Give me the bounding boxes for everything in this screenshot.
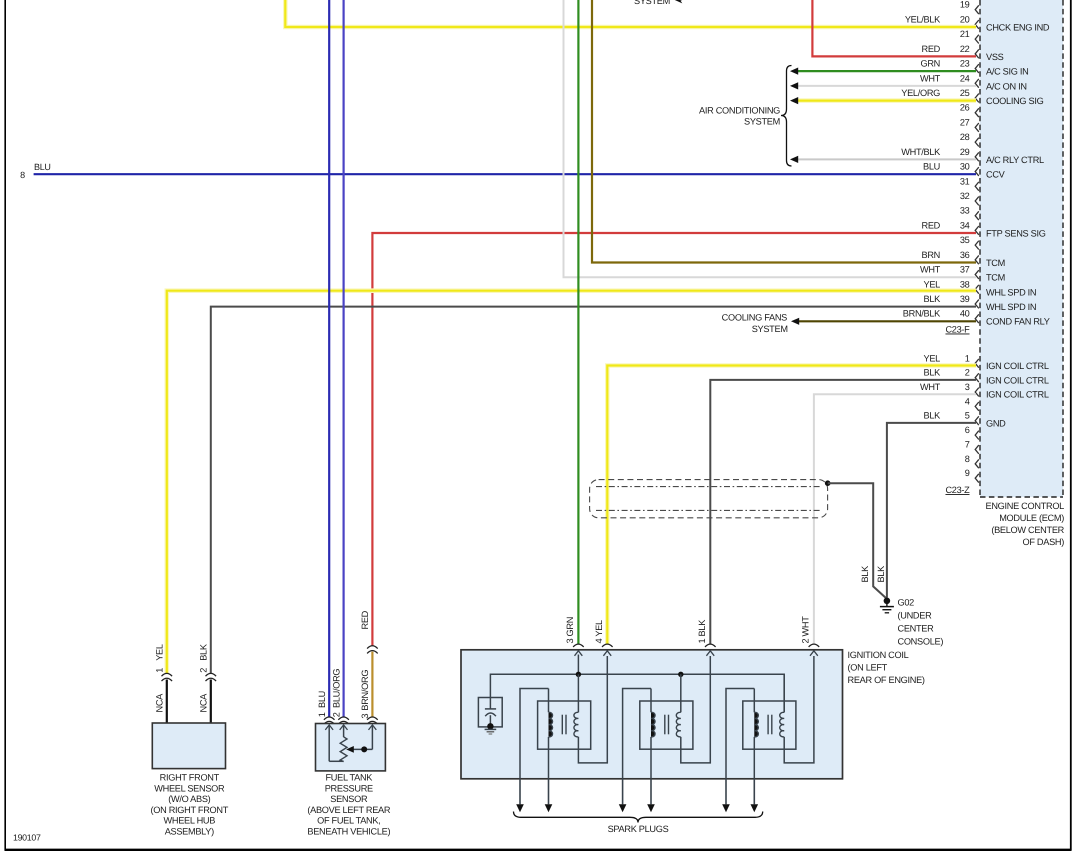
connector arc coil pin 3 — [573, 644, 584, 647]
svg-text:(W/O ABS): (W/O ABS) — [168, 794, 210, 804]
svg-text:2: 2 — [198, 668, 208, 673]
svg-text:27: 27 — [960, 117, 970, 127]
svg-text:BRN: BRN — [922, 250, 941, 260]
wire NCA 1 wheel sensor — [166, 680, 168, 724]
ECM pin 28 (C23-F) — [975, 138, 979, 147]
svg-text:WHL SPD IN: WHL SPD IN — [986, 302, 1036, 312]
svg-text:SENSOR: SENSOR — [330, 794, 368, 804]
ECM pin 40 (C23-F) — [975, 314, 979, 323]
unit 2 secondary vertical stubs — [650, 689, 652, 713]
unit 1 secondary vertical stubs — [548, 689, 550, 713]
svg-text:28: 28 — [960, 132, 970, 142]
svg-text:WHL SPD IN: WHL SPD IN — [986, 287, 1036, 297]
svg-text:CENTER: CENTER — [898, 623, 935, 633]
svg-text:PRESSURE: PRESSURE — [325, 783, 373, 793]
svg-text:29: 29 — [960, 147, 970, 157]
svg-text:BENEATH VEHICLE): BENEATH VEHICLE) — [307, 826, 390, 836]
ECM pin 31 (C23-F) — [975, 182, 979, 191]
svg-text:SYSTEM: SYSTEM — [634, 0, 670, 6]
wire RED pin22 VSS — [812, 0, 976, 56]
svg-text:NCA: NCA — [154, 693, 164, 713]
svg-text:COND FAN RLY: COND FAN RLY — [986, 317, 1050, 327]
ECM connector block C23 fill — [980, 0, 1063, 497]
ground G02 — [884, 598, 891, 605]
unit 3 secondary winding (to spark plugs) — [754, 712, 758, 737]
svg-text:34: 34 — [960, 220, 970, 230]
svg-text:1: 1 — [317, 712, 327, 717]
svg-text:(ON LEFT: (ON LEFT — [848, 663, 888, 673]
svg-text:38: 38 — [960, 279, 970, 289]
ignition coil transformer unit 3 box — [743, 701, 796, 749]
svg-text:33: 33 — [960, 206, 970, 216]
svg-text:SYSTEM: SYSTEM — [752, 324, 788, 334]
ECM pin 8 (C23-Z) — [975, 459, 979, 468]
svg-text:(ABOVE LEFT REAR: (ABOVE LEFT REAR — [307, 805, 391, 815]
ECM pin 23 (C23-F) — [975, 64, 979, 73]
svg-text:BLK: BLK — [198, 643, 208, 661]
wire BRN/ORG fuel sensor pin3 — [371, 652, 373, 717]
spark plug lead 5 — [725, 779, 727, 805]
rail junction dot unit2 — [678, 672, 683, 677]
ECM pin 29 (C23-F) — [975, 152, 979, 161]
svg-text:FUEL TANK: FUEL TANK — [325, 773, 373, 783]
capacitor ground dot — [487, 723, 493, 729]
svg-text:GRN: GRN — [920, 59, 940, 69]
svg-text:BRN/ORG: BRN/ORG — [360, 670, 370, 711]
unit 1 primary top stub — [577, 674, 579, 712]
svg-text:1: 1 — [154, 668, 164, 673]
arrow WHT to A/C system — [790, 82, 798, 89]
fuel sensor internal pin1 arrow — [325, 725, 333, 730]
unit 1 primary bottom route to control wire — [578, 656, 607, 763]
wire WHT pin37 TCM — [564, 0, 977, 277]
svg-text:SYSTEM: SYSTEM — [744, 117, 780, 127]
svg-text:4 YEL: 4 YEL — [594, 620, 604, 644]
unit 3 primary top stub — [783, 674, 785, 712]
ECM dashed border bottom — [980, 496, 1063, 498]
ECM pin 22 (C23-F) — [975, 49, 979, 58]
wire WHT pinZ3 IGN COIL CTRL — [814, 394, 976, 644]
svg-text:3: 3 — [360, 714, 370, 719]
unit 3 secondary top cross-over to spark plug column — [726, 689, 754, 779]
svg-text:YEL: YEL — [154, 644, 164, 661]
shield drain junction — [825, 480, 831, 486]
svg-text:IGN COIL CTRL: IGN COIL CTRL — [986, 375, 1049, 385]
svg-text:2: 2 — [332, 712, 342, 717]
arrow into coil pin 4 — [603, 651, 611, 656]
svg-text:35: 35 — [960, 235, 970, 245]
svg-text:31: 31 — [960, 176, 970, 186]
connector arc coil pin 4 — [602, 644, 613, 647]
connectors at fuel sensor box — [324, 717, 335, 720]
svg-text:COOLING FANS: COOLING FANS — [722, 312, 787, 322]
ignition coil transformer unit 2 box — [640, 701, 693, 749]
svg-text:5: 5 — [965, 411, 970, 421]
svg-text:BLK: BLK — [924, 411, 942, 421]
ECM pin 34 (C23-F) — [975, 226, 979, 235]
svg-text:(ON RIGHT FRONT: (ON RIGHT FRONT — [151, 805, 229, 815]
svg-text:9: 9 — [965, 468, 970, 478]
fuel tank pressure sensor box — [316, 724, 386, 771]
svg-text:ASSEMBLY): ASSEMBLY) — [165, 826, 214, 836]
svg-text:COOLING SIG: COOLING SIG — [986, 96, 1044, 106]
svg-text:BLK: BLK — [924, 294, 942, 304]
arrow BRN/BLK to cooling fans system — [791, 318, 799, 325]
unit 2 primary winding — [676, 712, 681, 737]
svg-text:23: 23 — [960, 59, 970, 69]
arrow into coil pin 3 — [575, 651, 583, 656]
spark plug lead 3 — [622, 779, 624, 805]
ECM pin 2 (C23-Z) — [975, 373, 979, 382]
wire YEL pin38 WHL SPD IN — [167, 291, 976, 674]
ECM pin 38 (C23-F) — [975, 285, 979, 294]
svg-text:A/C RLY CTRL: A/C RLY CTRL — [986, 155, 1044, 165]
svg-text:YEL: YEL — [924, 279, 941, 289]
svg-text:WHT: WHT — [920, 265, 941, 275]
ECM dashed border left — [979, 0, 981, 497]
svg-text:32: 32 — [960, 191, 970, 201]
capacitor (noise suppressor) box — [478, 698, 502, 727]
svg-text:BLU: BLU — [317, 691, 327, 708]
wire BLU/ORG fuel sensor pin2 — [343, 0, 345, 717]
ignition coil box — [461, 650, 843, 779]
unit 1 secondary top cross-over to spark plug column — [520, 689, 549, 779]
svg-text:YEL/ORG: YEL/ORG — [901, 88, 940, 98]
wire WHT pin24 A/C ON IN — [798, 85, 976, 87]
GRN entry stem to rail — [577, 655, 579, 677]
wire BLK pinZ5 GND — [887, 423, 976, 598]
svg-text:1 BLK: 1 BLK — [697, 619, 707, 644]
svg-text:RED: RED — [360, 610, 370, 629]
shield dashed outline — [590, 480, 828, 518]
ignition coil transformer unit 1 box — [538, 701, 591, 749]
svg-text:37: 37 — [960, 265, 970, 275]
svg-text:YEL: YEL — [924, 353, 941, 363]
svg-text:WHT: WHT — [920, 73, 941, 83]
svg-text:TCM: TCM — [986, 258, 1005, 268]
wire BRN/BLK pin40 COND FAN RLY — [799, 320, 976, 322]
fuel sensor potentiometer resistor — [340, 737, 347, 762]
arrow GRN to A/C system — [790, 68, 798, 75]
svg-text:IGN COIL CTRL: IGN COIL CTRL — [986, 361, 1049, 371]
svg-text:BLK: BLK — [860, 565, 870, 583]
svg-text:8: 8 — [20, 170, 25, 180]
svg-text:6: 6 — [965, 425, 970, 435]
ECM pin 9 (C23-Z) — [975, 474, 979, 483]
fuel sensor bottom link pin1 to resistor — [329, 760, 343, 762]
arrow WHT/BLK to A/C system — [790, 156, 798, 163]
wire RED pin34 FTP SENS SIG — [372, 233, 976, 646]
fuel sensor internal pin2 arrow — [340, 725, 348, 730]
svg-text:25: 25 — [960, 88, 970, 98]
svg-text:CCV: CCV — [986, 170, 1006, 180]
ECM pin 26 (C23-F) — [975, 108, 979, 117]
wire NCA 2 wheel sensor — [210, 680, 212, 724]
ECM pin 32 (C23-F) — [975, 197, 979, 206]
svg-text:(UNDER: (UNDER — [898, 610, 933, 620]
capacitor ground — [485, 728, 497, 730]
connector arc coil pin 2 — [809, 644, 820, 647]
svg-text:2 WHT: 2 WHT — [801, 616, 811, 644]
svg-text:1: 1 — [965, 353, 970, 363]
shield inner dashed line bottom — [596, 509, 822, 511]
ECM pin 20 (C23-F) — [975, 20, 979, 29]
rail junction dot unit1 — [576, 672, 581, 677]
connector on BLK wheel wire — [206, 673, 217, 676]
ECM pin 27 (C23-F) — [975, 123, 979, 132]
ECM pin 3 (C23-Z) — [975, 388, 979, 397]
svg-text:C23-Z: C23-Z — [945, 485, 970, 495]
svg-text:BLK: BLK — [876, 565, 886, 583]
svg-text:MODULE (ECM): MODULE (ECM) — [999, 513, 1064, 523]
fuel sensor wiper junction dot — [361, 746, 367, 752]
wire BLU fuel sensor pin1 — [328, 0, 330, 717]
svg-text:VSS: VSS — [986, 52, 1004, 62]
ECM pin 37 (C23-F) — [975, 270, 979, 279]
unit 3 primary bottom route to control wire — [784, 656, 814, 763]
svg-text:21: 21 — [960, 29, 970, 39]
connector arc coil pin 1 — [705, 644, 716, 647]
svg-text:WHT: WHT — [920, 382, 941, 392]
svg-text:3 GRN: 3 GRN — [565, 617, 575, 644]
wire YEL pinZ1 IGN COIL CTRL — [607, 366, 976, 645]
brace air conditioning — [781, 66, 792, 167]
unit 1 secondary winding (to spark plugs) — [549, 712, 553, 737]
unit 3 core lines — [767, 715, 769, 735]
ECM dashed border right — [1062, 0, 1064, 497]
svg-text:WHEEL SENSOR: WHEEL SENSOR — [154, 783, 225, 793]
spark plug lead 2 — [548, 779, 550, 805]
svg-text:RIGHT FRONT: RIGHT FRONT — [160, 773, 220, 783]
svg-text:3: 3 — [965, 382, 970, 392]
ECM pin 6 (C23-Z) — [975, 431, 979, 440]
ECM pin 36 (C23-F) — [975, 255, 979, 264]
ECM pin 39 (C23-F) — [975, 300, 979, 309]
unit 1 primary winding — [574, 712, 579, 737]
svg-text:WHT/BLK: WHT/BLK — [901, 147, 941, 157]
svg-text:ENGINE CONTROL: ENGINE CONTROL — [986, 501, 1065, 511]
wire BLK shield drain to ground — [828, 483, 887, 598]
svg-text:CONSOLE): CONSOLE) — [898, 636, 944, 646]
unit 2 secondary top cross-over to spark plug column — [623, 689, 651, 779]
svg-text:G02: G02 — [898, 597, 915, 607]
svg-text:BLU: BLU — [923, 162, 940, 172]
page border frame — [4, 0, 6, 850]
ECM pin 7 (C23-Z) — [975, 445, 979, 454]
svg-text:36: 36 — [960, 250, 970, 260]
svg-text:IGNITION COIL: IGNITION COIL — [848, 650, 909, 660]
wire BLU pin30 CCV — [34, 173, 976, 175]
svg-text:7: 7 — [965, 439, 970, 449]
svg-text:22: 22 — [960, 44, 970, 54]
svg-text:TCM: TCM — [986, 273, 1005, 283]
spark plug lead 6 — [753, 779, 755, 805]
spark plug lead 1 — [519, 779, 521, 805]
ECM pin 1 (C23-Z) — [975, 359, 979, 368]
wire BLK pin39 WHL SPD IN — [211, 307, 976, 674]
svg-text:A/C SIG IN: A/C SIG IN — [986, 67, 1028, 77]
right front wheel sensor box — [152, 723, 225, 769]
svg-text:REAR OF ENGINE): REAR OF ENGINE) — [848, 675, 925, 685]
svg-text:SPARK PLUGS: SPARK PLUGS — [608, 824, 669, 834]
ECM pin 21 (C23-F) — [975, 35, 979, 44]
unit 3 secondary vertical stubs — [753, 689, 755, 713]
wire YEL/ORG pin25 COOLING SIG — [798, 98, 976, 103]
svg-text:OF DASH): OF DASH) — [1023, 537, 1065, 547]
svg-text:OF FUEL TANK,: OF FUEL TANK, — [317, 816, 380, 826]
svg-text:BLK: BLK — [924, 368, 942, 378]
svg-text:WHEEL HUB: WHEEL HUB — [164, 816, 216, 826]
svg-text:19: 19 — [960, 0, 970, 10]
wire GRN pin23 A/C SIG IN — [798, 70, 976, 72]
ECM pin 5 (C23-Z) — [975, 416, 979, 425]
svg-text:RED: RED — [922, 44, 941, 54]
svg-text:(BELOW CENTER: (BELOW CENTER — [991, 525, 1064, 535]
fuel sensor internal pin3 arrow — [369, 725, 377, 730]
arrow YEL/ORG to A/C system — [790, 97, 798, 104]
svg-text:BLU: BLU — [34, 162, 51, 172]
svg-text:CHCK ENG IND: CHCK ENG IND — [986, 22, 1050, 32]
arrow into coil pin 1 — [706, 651, 714, 656]
svg-text:BLU/ORG: BLU/ORG — [332, 669, 342, 708]
coil internal rail — [490, 674, 784, 712]
svg-text:A/C ON IN: A/C ON IN — [986, 81, 1027, 91]
connector on RED/BRN-ORG fuel wire — [367, 646, 378, 649]
svg-text:39: 39 — [960, 294, 970, 304]
wire YEL/BLK pin20 CHCK ENG IND — [285, 0, 976, 27]
svg-text:20: 20 — [960, 14, 970, 24]
ECM pin 33 (C23-F) — [975, 211, 979, 220]
svg-text:AIR CONDITIONING: AIR CONDITIONING — [699, 105, 780, 115]
wire WHT/BLK pin29 A/C RLY CTRL — [798, 158, 976, 160]
wire BRN pin36 TCM — [592, 0, 976, 263]
svg-text:2: 2 — [965, 368, 970, 378]
svg-text:8: 8 — [965, 454, 970, 464]
spark plug lead 4 — [650, 779, 652, 805]
wire GRN vertical to ignition coil — [577, 0, 579, 645]
svg-text:24: 24 — [960, 73, 970, 83]
fuel sensor wiper — [350, 748, 373, 750]
ECM pin 30 (C23-F) — [975, 167, 979, 176]
svg-text:30: 30 — [960, 162, 970, 172]
svg-text:RED: RED — [922, 220, 941, 230]
unit 2 secondary winding (to spark plugs) — [651, 712, 655, 737]
svg-text:YEL/BLK: YEL/BLK — [905, 14, 941, 24]
ECM pin 25 (C23-F) — [975, 94, 979, 103]
svg-text:C23-F: C23-F — [945, 325, 970, 335]
unit 2 primary bottom route to control wire — [681, 656, 711, 763]
wire BLK pinZ2 IGN COIL CTRL — [710, 380, 976, 645]
svg-text:IGN COIL CTRL: IGN COIL CTRL — [986, 390, 1049, 400]
ECM pin 4 (C23-Z) — [975, 402, 979, 411]
unit 2 core lines — [664, 715, 666, 735]
svg-text:BRN/BLK: BRN/BLK — [903, 309, 941, 319]
capacitor C plates — [485, 708, 496, 710]
svg-text:40: 40 — [960, 309, 970, 319]
unit 1 core lines — [561, 715, 563, 735]
connector on YEL wheel wire — [162, 673, 173, 676]
svg-text:26: 26 — [960, 103, 970, 113]
shield inner dashed line top — [596, 486, 822, 488]
svg-text:NCA: NCA — [198, 693, 208, 713]
spark plugs brace — [514, 812, 763, 823]
unit 2 primary top stub — [680, 674, 682, 712]
ECM pin 24 (C23-F) — [975, 79, 979, 88]
ECM pin 19 (C23-F) — [975, 5, 979, 14]
svg-text:FTP SENS SIG: FTP SENS SIG — [986, 228, 1046, 238]
ECM pin 35 (C23-F) — [975, 241, 979, 250]
arrow into coil pin 2 — [810, 651, 818, 656]
svg-text:GND: GND — [986, 418, 1006, 428]
unit 3 primary winding — [780, 712, 785, 737]
svg-text:4: 4 — [965, 396, 970, 406]
svg-text:190107: 190107 — [13, 833, 41, 843]
